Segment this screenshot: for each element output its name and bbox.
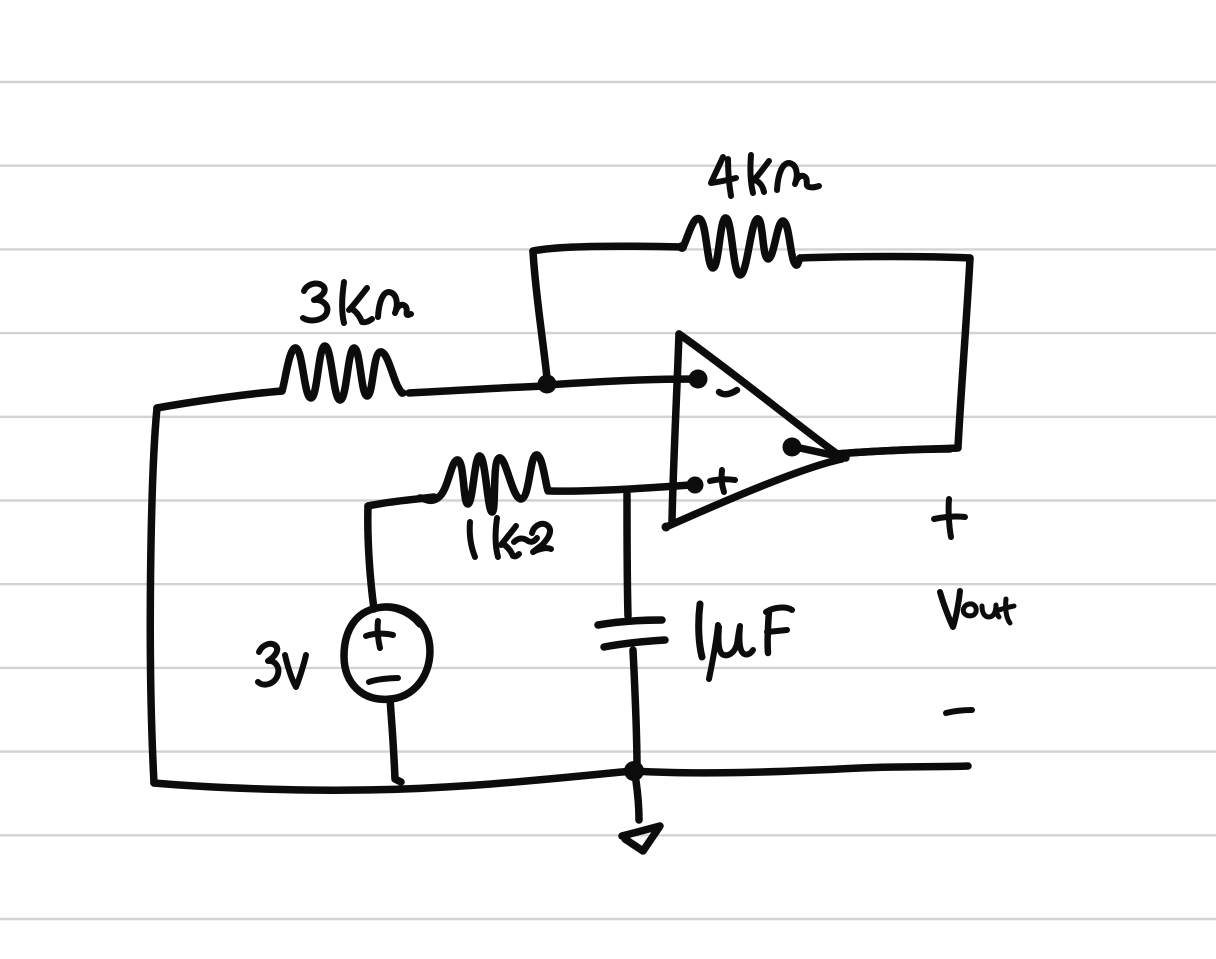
label k of 1k bbox=[496, 518, 498, 557]
wire source plus vertical bbox=[368, 506, 374, 609]
label 1 of 1uF bbox=[699, 604, 702, 657]
wire 3k to inverting node bbox=[409, 386, 548, 393]
label 3 of 3k bbox=[303, 284, 327, 321]
label ohm of 4k bbox=[777, 163, 819, 190]
pin dot inverting input bbox=[689, 370, 708, 389]
wire 3k input lead bbox=[157, 391, 282, 408]
wire non-inverting lead bbox=[550, 485, 690, 491]
wire capacitor to ground rail bbox=[633, 650, 637, 768]
resistor R1 3k zigzag bbox=[282, 346, 403, 400]
label minus sign inside op-amp bbox=[719, 390, 737, 394]
wire output dot lead bbox=[800, 448, 846, 458]
label plus sign inside op-amp bbox=[710, 470, 735, 492]
op-amp U1 top edge bbox=[679, 334, 836, 453]
label Vout o bbox=[963, 604, 976, 616]
label F of 1uF bbox=[768, 611, 769, 653]
op-amp U1 left edge bbox=[672, 334, 679, 521]
label V of 3V bbox=[285, 655, 306, 687]
wire op-amp output bbox=[837, 449, 950, 454]
label ohm of 1k bbox=[514, 538, 537, 542]
wire feedback top right bbox=[800, 257, 970, 259]
wire left vertical branch bbox=[150, 408, 157, 783]
wire source top corner bbox=[368, 497, 434, 506]
node B ground junction dot bbox=[624, 761, 644, 781]
label Vout u bbox=[982, 605, 999, 617]
pin dot non-inverting input bbox=[687, 477, 704, 494]
pen blob 4k entry bbox=[677, 242, 687, 252]
resistor R3 1k zigzag bbox=[420, 455, 548, 512]
capacitor C1 bottom plate bbox=[604, 640, 665, 647]
label ohm of 3k bbox=[378, 292, 411, 317]
wire inverting input lead bbox=[548, 379, 694, 385]
node A inverting junction dot bbox=[538, 375, 557, 394]
wire non-inverting to capacitor bbox=[627, 494, 628, 616]
wire feedback right vertical bbox=[958, 258, 970, 447]
voltage source V1 circle bbox=[344, 607, 430, 699]
label mu of 1uF bbox=[709, 625, 718, 679]
wire junction up to feedback bbox=[533, 251, 547, 378]
label minus sign Vout bbox=[946, 710, 972, 713]
label 4 of 4k bbox=[711, 157, 736, 183]
label minus sign in source bbox=[369, 678, 398, 682]
label k of 3k bbox=[342, 282, 344, 323]
label plus sign in source bbox=[366, 621, 393, 648]
op-amp U1 bottom edge bbox=[666, 459, 842, 527]
pin dot output bbox=[783, 438, 802, 457]
label plus sign Vout bbox=[934, 517, 965, 519]
label 3 of 3V bbox=[258, 644, 278, 685]
capacitor C1 top plate bbox=[598, 620, 662, 625]
ground symbol triangle bbox=[622, 826, 660, 851]
label k of 4k bbox=[750, 155, 753, 193]
pen blob 1k peak bbox=[532, 452, 541, 461]
label Vout V bbox=[940, 591, 960, 627]
op-amp pen blob bottom-left bbox=[662, 523, 671, 532]
resistor R2 4k zigzag bbox=[683, 218, 800, 275]
wire source bottom bbox=[390, 699, 401, 782]
wire ground stub bbox=[636, 781, 639, 820]
label Vout t bbox=[1006, 599, 1010, 623]
wire bottom rail bbox=[154, 766, 968, 790]
wire feedback top left bbox=[533, 246, 683, 251]
handwritten labels bbox=[258, 155, 1014, 713]
label 1 of 1k bbox=[470, 522, 475, 557]
wire output to feedback corner bbox=[837, 448, 958, 454]
